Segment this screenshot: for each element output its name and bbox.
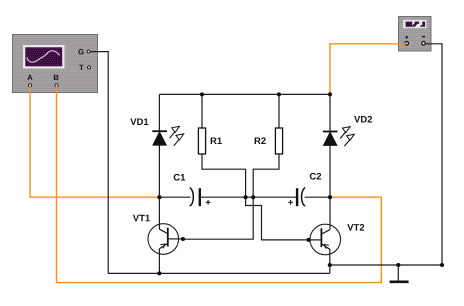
wire: R1 top lead <box>201 94 203 128</box>
LED VD1 <box>152 131 167 145</box>
wire: R1 bottom to cross node <box>202 154 246 197</box>
wire: cap line right (C2 to VT2 collector) <box>305 196 330 198</box>
LED VD1 emission arrows <box>170 126 184 146</box>
label VT1 <box>133 215 150 222</box>
wire: VD2 branch top <box>329 94 331 131</box>
label C1 <box>174 174 185 181</box>
wire: emitter node to battery minus column <box>330 264 442 266</box>
wire: VD1 branch top <box>158 94 160 131</box>
oscilloscope terminal T <box>79 65 90 70</box>
wire: cross coupling to VT2 base <box>246 197 309 240</box>
label VD1 <box>130 118 148 125</box>
label R2 <box>255 137 266 144</box>
junction node VT1 emitter on bottom rail <box>157 271 161 275</box>
ground symbol <box>390 265 409 282</box>
junction node ground stub <box>396 263 400 267</box>
junction node VT1 base <box>181 237 185 241</box>
wire: VT2 emitter down <box>329 249 331 274</box>
resistor R1 <box>198 128 205 154</box>
oscilloscope terminal G <box>78 49 90 54</box>
label C2 <box>310 173 321 180</box>
oscilloscope terminal B <box>54 75 59 87</box>
capacitor C2 <box>288 188 305 207</box>
wire: bottom rail <box>108 272 330 274</box>
wire: orange scope A to node VT1 collector <box>30 86 159 198</box>
junction node VT2 base <box>306 238 310 242</box>
wire: VD2 cathode to VT2 collector <box>329 146 331 230</box>
battery minus terminal <box>422 37 426 46</box>
label VT2 <box>347 224 364 231</box>
label VD2 <box>354 116 372 123</box>
oscilloscope terminal A <box>27 75 32 87</box>
junction node battery minus column <box>440 263 444 267</box>
transistor VT2 <box>308 224 340 255</box>
oscilloscope screen with sine wave <box>23 45 65 69</box>
battery / power supply body <box>399 17 432 52</box>
wire: VT1 emitter down to bottom rail <box>158 249 160 274</box>
transistor VT1 <box>148 224 183 255</box>
label R1 <box>211 137 222 144</box>
wire: battery minus down <box>426 44 442 265</box>
battery plus terminal <box>405 36 409 45</box>
junction node on top rail at R2 <box>277 92 281 96</box>
junction node top rail right VD2 battery plus <box>328 92 332 96</box>
wire: cap line middle (C1 to C2) <box>201 196 296 198</box>
junction node on top rail at R1 <box>200 92 204 96</box>
wire: VD1 cathode to VT1 collector <box>158 145 160 229</box>
wire: top rail <box>159 93 330 95</box>
wire: orange battery plus to top rail <box>330 44 407 95</box>
junction node VT2 collector scope B <box>328 195 332 199</box>
junction node VT2 emitter <box>328 263 332 267</box>
junction node cap line right cross <box>251 195 255 199</box>
battery display <box>403 20 427 28</box>
wire: cap line left (VT1 collector to C1) <box>159 196 190 198</box>
capacitor C1 <box>190 188 211 207</box>
junction node cap line left cross <box>244 195 248 199</box>
junction node VT1 collector scope A <box>157 195 161 199</box>
resistor R2 <box>275 128 282 154</box>
wire: R2 bottom to cross node <box>253 154 279 197</box>
LED VD2 <box>323 132 338 146</box>
LED VD2 emission arrows <box>340 127 354 147</box>
wire: scope G to bottom rail <box>91 52 109 274</box>
oscilloscope XSC1 body <box>13 35 98 93</box>
wire: cross coupling to VT1 base <box>183 197 253 239</box>
wire: R2 top lead <box>278 94 280 128</box>
wire: orange scope B around bottom to node VT2 collector <box>57 86 382 283</box>
